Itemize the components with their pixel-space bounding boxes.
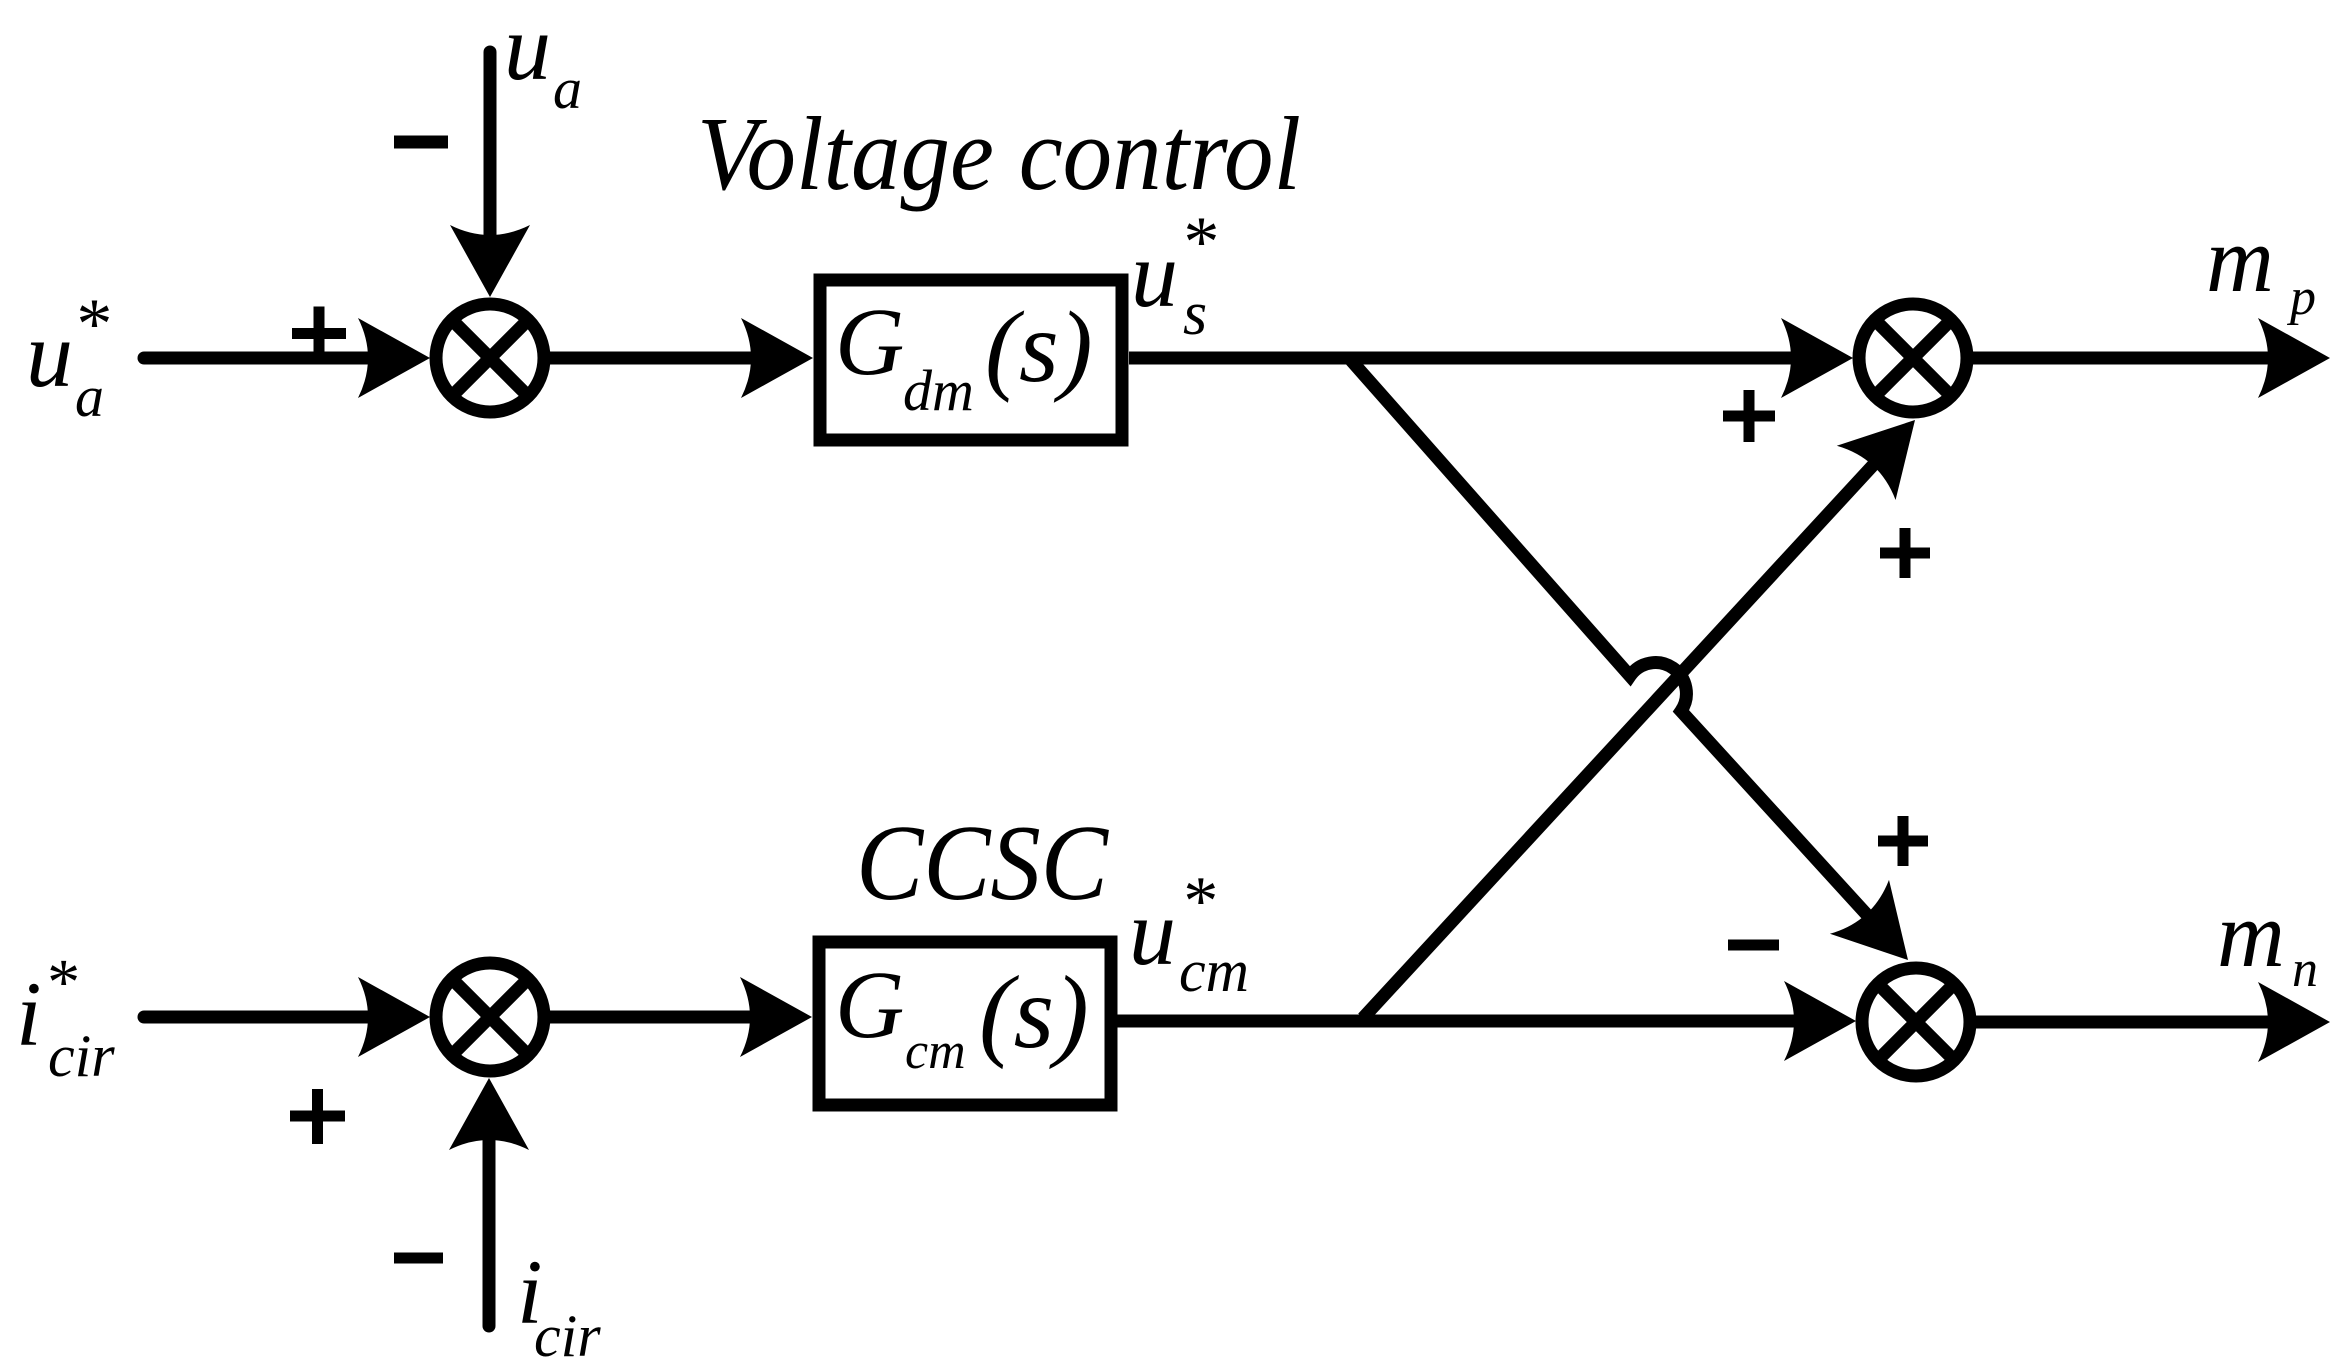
label CCSC	[856, 804, 1110, 923]
svg-text:u: u	[504, 0, 551, 100]
wire S3 to m_p output	[1973, 318, 2330, 398]
label m_p	[2206, 208, 2316, 326]
svg-text:*: *	[44, 946, 77, 1019]
wire S4 to m_n output	[1976, 982, 2330, 1062]
label u_a	[504, 0, 582, 121]
svg-text:cir: cir	[48, 1023, 115, 1089]
label u_a*	[26, 284, 109, 429]
node plus sign at S1 left input	[292, 307, 346, 361]
summing junction S1	[436, 304, 544, 412]
svg-text:*: *	[73, 284, 109, 364]
svg-text:u: u	[1129, 881, 1176, 985]
label m_n	[2217, 883, 2318, 998]
wire cross branch ucm* to S3	[1363, 393, 1944, 1018]
svg-text:s: s	[1183, 280, 1207, 348]
svg-text:m: m	[2206, 208, 2274, 312]
wire u_a* input	[144, 318, 430, 398]
label Voltage control	[697, 95, 1301, 212]
node minus sign at S1 top input	[394, 136, 448, 149]
svg-text:G: G	[835, 288, 904, 395]
label Gdm(s)	[835, 288, 1093, 423]
label i_cir	[517, 1241, 601, 1369]
wire u_a vertical input	[450, 52, 530, 297]
svg-text:a: a	[553, 56, 582, 121]
wire S1 to block Gdm	[550, 318, 813, 398]
svg-text:(s): (s)	[985, 291, 1093, 404]
block Gcm(s) circulating current controller	[819, 942, 1111, 1105]
label u_cm*	[1129, 863, 1249, 1004]
svg-text:m: m	[2217, 883, 2285, 987]
svg-text:Voltage control: Voltage control	[697, 95, 1301, 212]
svg-text:G: G	[835, 951, 904, 1058]
node minus sign at S4 left input	[1728, 940, 1779, 951]
svg-text:cm: cm	[905, 1023, 966, 1080]
svg-text:CCSC: CCSC	[856, 804, 1110, 923]
svg-text:u: u	[26, 303, 73, 407]
svg-text:n: n	[2292, 941, 2318, 998]
wire Gcm output to S4	[1117, 981, 1856, 1061]
svg-text:dm: dm	[903, 358, 974, 423]
svg-text:cir: cir	[534, 1303, 601, 1369]
block Gdm(s) voltage controller	[820, 280, 1122, 440]
svg-text:u: u	[1131, 223, 1178, 327]
wire i_cir vertical input	[449, 1078, 529, 1326]
label Gcm(s)	[835, 951, 1089, 1080]
summing junction S2	[436, 963, 544, 1071]
summing junction S4	[1862, 968, 1970, 1076]
svg-text:i: i	[16, 963, 42, 1065]
svg-text:a: a	[75, 364, 104, 429]
node plus sign at S2 left input	[290, 1089, 345, 1144]
label u_s*	[1131, 202, 1216, 348]
svg-text:cm: cm	[1179, 938, 1249, 1004]
node plus sign at S3 left input	[1723, 390, 1775, 442]
wire i_cir* input	[144, 977, 430, 1057]
node minus sign at S2 bottom input	[394, 1253, 443, 1264]
wire Gdm output to S3	[1129, 318, 1853, 398]
svg-text:(s): (s)	[979, 955, 1089, 1070]
node plus sign at S4 diagonal input	[1878, 816, 1928, 866]
svg-text:*: *	[1180, 863, 1215, 940]
summing junction S3	[1859, 304, 1967, 412]
svg-text:p: p	[2286, 269, 2316, 326]
label i_cir*	[16, 946, 115, 1089]
node plus sign at S3 diagonal input	[1880, 528, 1930, 578]
wire S2 to block Gcm	[550, 977, 812, 1057]
svg-text:*: *	[1180, 202, 1216, 282]
wire cross branch us* to S4 with hop	[1349, 358, 1938, 987]
